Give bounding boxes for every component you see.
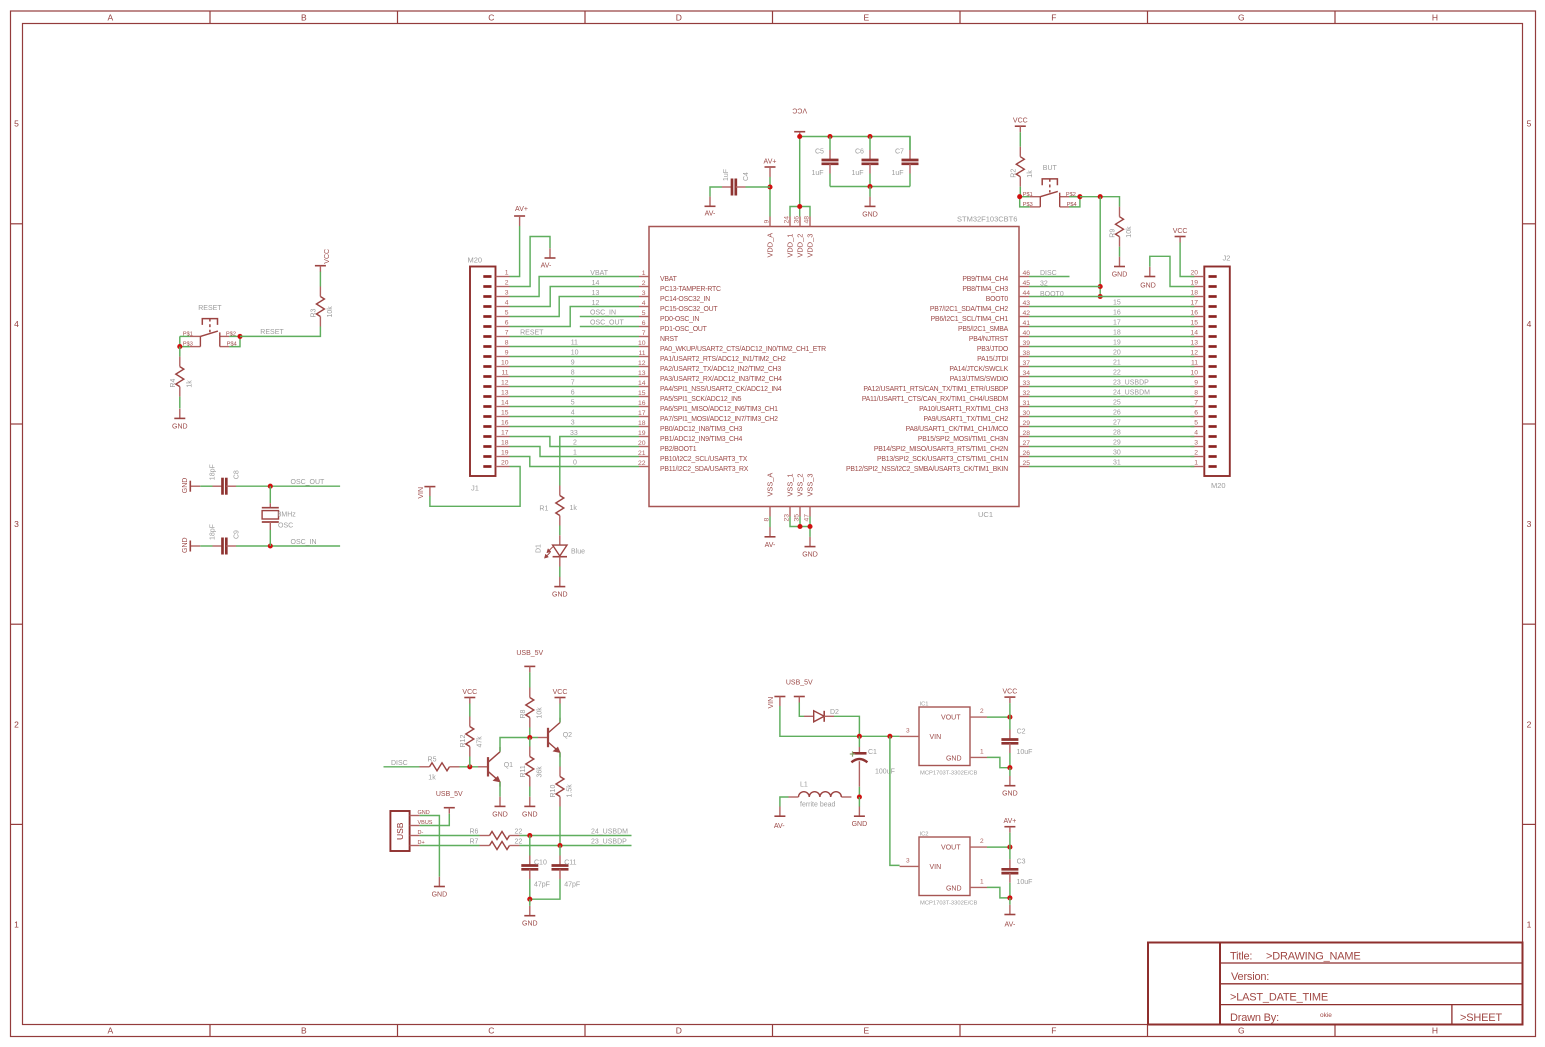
svg-text:P$2: P$2 xyxy=(226,332,236,338)
wire R8 to node xyxy=(529,728,531,738)
wire USB_5V to VBUS xyxy=(420,814,450,826)
svg-text:18: 18 xyxy=(1113,330,1121,337)
svg-text:MCP1703T-3302E/CB: MCP1703T-3302E/CB xyxy=(920,901,977,907)
svg-text:C6: C6 xyxy=(855,148,864,155)
svg-text:22: 22 xyxy=(515,839,523,846)
svg-text:24_USBDM: 24_USBDM xyxy=(1113,390,1150,397)
svg-text:1.5k: 1.5k xyxy=(567,784,574,798)
svg-text:M20: M20 xyxy=(468,256,483,265)
svg-text:A: A xyxy=(107,13,113,23)
capacitor C3 10uF xyxy=(1001,847,1032,886)
svg-text:13: 13 xyxy=(1190,340,1198,347)
svg-text:PA11/USART1_CTS/CAN_RX/TIM1_CH: PA11/USART1_CTS/CAN_RX/TIM1_CH4/USBDM xyxy=(862,396,1009,403)
svg-text:PB10/I2C2_SCL/USART3_TX: PB10/I2C2_SCL/USART3_TX xyxy=(660,456,748,463)
svg-text:D: D xyxy=(676,13,682,23)
wire J1 pin 16 to IC (net 3) xyxy=(510,420,640,427)
svg-text:D2: D2 xyxy=(830,709,839,716)
svg-text:1uF: 1uF xyxy=(723,169,730,181)
svg-text:D1: D1 xyxy=(536,544,543,553)
wire IC1 VOUT to VCC xyxy=(987,716,1010,718)
wire C6 to GND rail xyxy=(869,174,871,187)
wire J1 pin 10 to IC (net 9) xyxy=(510,360,640,367)
wire R4 to GND xyxy=(179,397,181,409)
svg-text:10uF: 10uF xyxy=(1017,749,1033,756)
svg-text:8MHz: 8MHz xyxy=(278,511,297,518)
svg-text:PB13/SPI2_SCK/USART3_CTS/TIM1_: PB13/SPI2_SCK/USART3_CTS/TIM1_CH1N xyxy=(877,456,1008,463)
wire C6 to GND xyxy=(869,187,871,197)
ground AV- (VSS_A) xyxy=(765,527,777,549)
ground GND (C1) xyxy=(852,807,868,829)
svg-text:PA7/SPI1_MOSI/ADC12_IN7/TIM3_C: PA7/SPI1_MOSI/ADC12_IN7/TIM3_CH2 xyxy=(660,416,778,423)
capacitor C2 10uF xyxy=(1001,717,1032,756)
wire C7 to GND rail xyxy=(909,174,911,187)
svg-text:USB: USB xyxy=(395,822,405,840)
svg-text:GND: GND xyxy=(432,892,448,899)
svg-text:17: 17 xyxy=(638,410,646,417)
svg-text:C4: C4 xyxy=(743,172,750,181)
svg-text:22: 22 xyxy=(515,829,523,836)
svg-text:C2: C2 xyxy=(1017,728,1026,735)
wire VDD_1..3 bracket to VCC xyxy=(790,207,810,217)
wire node to IC2 VIN xyxy=(890,736,900,865)
wire R1 to LED D1 xyxy=(559,526,561,536)
svg-text:AV+: AV+ xyxy=(515,206,528,213)
svg-text:GND: GND xyxy=(852,821,868,828)
svg-text:AV-: AV- xyxy=(774,823,785,830)
resistor R8 10k xyxy=(520,688,544,728)
svg-text:10k: 10k xyxy=(1126,226,1133,238)
svg-text:C8: C8 xyxy=(234,470,241,479)
svg-text:5: 5 xyxy=(14,119,19,129)
junction crystal OSC_IN xyxy=(268,543,273,548)
svg-text:23_USBDP: 23_USBDP xyxy=(591,839,627,846)
wire R11 to GND xyxy=(529,787,531,797)
svg-text:4: 4 xyxy=(571,410,575,417)
diode D2 xyxy=(804,709,839,722)
wire net DISC (USB section) xyxy=(384,760,420,767)
wire J1 pin 1 to AV+ xyxy=(510,226,520,277)
capacitor C9 18pF xyxy=(210,524,241,554)
IC UC1 bottom pin 47 VSS_3 xyxy=(649,215,1019,520)
svg-text:PA5/SPI1_SCK/ADC12_IN5: PA5/SPI1_SCK/ADC12_IN5 xyxy=(660,396,742,403)
wire net 27 (IC row 16 to J2) xyxy=(1029,420,1194,427)
wire J1 pin 6 to IC row 4 (net 12) xyxy=(510,300,640,327)
svg-text:VBAT: VBAT xyxy=(660,276,678,283)
svg-text:P$4: P$4 xyxy=(227,342,237,348)
svg-text:5: 5 xyxy=(1527,119,1532,129)
svg-text:3: 3 xyxy=(1194,440,1198,447)
svg-text:M20: M20 xyxy=(1211,481,1226,490)
svg-text:PA9/USART1_TX/TIM1_CH2: PA9/USART1_TX/TIM1_CH2 xyxy=(923,416,1008,423)
svg-text:PA2/USART2_TX/ADC12_IN2/TIM2_C: PA2/USART2_TX/ADC12_IN2/TIM2_CH3 xyxy=(660,366,781,373)
wire net 23_USBDP (IC row 12 to J2) xyxy=(1029,380,1194,387)
connector USB body xyxy=(390,811,409,851)
svg-text:OSC_IN: OSC_IN xyxy=(590,310,616,317)
junction IC1 VOUT / C2 xyxy=(1007,715,1012,720)
svg-text:10k: 10k xyxy=(327,306,334,318)
svg-text:>LAST_DATE_TIME: >LAST_DATE_TIME xyxy=(1230,992,1328,1004)
svg-text:>DRAWING_NAME: >DRAWING_NAME xyxy=(1266,951,1360,963)
supply AV+ (J1) xyxy=(514,206,528,226)
svg-text:5: 5 xyxy=(1194,420,1198,427)
svg-text:R9: R9 xyxy=(1110,229,1117,238)
svg-text:R11: R11 xyxy=(520,765,527,777)
svg-text:3: 3 xyxy=(906,858,910,865)
capacitor C10 47pF xyxy=(521,856,550,889)
resistor R10 1.5k xyxy=(550,767,574,807)
svg-text:P$1: P$1 xyxy=(1023,192,1033,198)
svg-text:2: 2 xyxy=(14,719,19,729)
svg-text:29: 29 xyxy=(1113,440,1121,447)
resistor R3 10k xyxy=(310,287,334,327)
svg-text:VCC: VCC xyxy=(1003,689,1018,696)
wire USB_5V to R8 xyxy=(529,672,531,687)
svg-text:VCC: VCC xyxy=(792,107,807,114)
wire net 23_USBDP xyxy=(520,839,632,846)
wire J1 pin 11 to IC (net 8) xyxy=(510,370,640,377)
svg-text:3: 3 xyxy=(571,420,575,427)
svg-text:AV-: AV- xyxy=(541,262,552,269)
svg-text:PA12/USART1_RTS/CAN_TX/TIM1_ET: PA12/USART1_RTS/CAN_TX/TIM1_ETR/USBDP xyxy=(863,386,1008,393)
wire D2 to node xyxy=(834,716,859,736)
svg-text:1k: 1k xyxy=(1027,170,1034,178)
svg-text:VIN: VIN xyxy=(930,864,942,871)
svg-text:5: 5 xyxy=(642,310,646,317)
wire net 20 (IC row 9 to J2) xyxy=(1029,350,1194,357)
wire GND to C8 xyxy=(200,485,212,487)
svg-text:12: 12 xyxy=(638,360,646,367)
svg-text:F: F xyxy=(1051,13,1056,23)
svg-text:25: 25 xyxy=(1113,400,1121,407)
svg-text:1uF: 1uF xyxy=(892,170,904,177)
wire node to R11 xyxy=(529,738,531,747)
pushbutton BUT xyxy=(1020,165,1080,208)
wire C8 to crystal node / net OSC_OUT xyxy=(236,479,340,486)
svg-text:18pF: 18pF xyxy=(210,524,217,540)
resistor R9 10k xyxy=(1110,207,1134,247)
svg-text:PB6/I2C1_SCL/TIM4_CH1: PB6/I2C1_SCL/TIM4_CH1 xyxy=(931,316,1009,323)
svg-text:BOOT0: BOOT0 xyxy=(1040,291,1064,298)
svg-text:STM32F103CBT6: STM32F103CBT6 xyxy=(957,215,1017,224)
wire C11 to GND node xyxy=(530,879,560,899)
svg-text:P$2: P$2 xyxy=(1066,192,1076,198)
svg-text:OSC_OUT: OSC_OUT xyxy=(291,479,326,486)
svg-text:H: H xyxy=(1432,1026,1438,1036)
ground GND (top caps) xyxy=(862,197,878,219)
svg-text:21: 21 xyxy=(1113,360,1121,367)
svg-text:10uF: 10uF xyxy=(1017,879,1033,886)
svg-text:18: 18 xyxy=(1190,290,1198,297)
junction C1/L1/GND xyxy=(857,794,862,799)
svg-text:9: 9 xyxy=(505,350,509,357)
svg-text:Blue: Blue xyxy=(571,549,585,556)
svg-text:C9: C9 xyxy=(234,530,241,539)
wire VCC to Q2 collector xyxy=(559,704,561,723)
svg-text:2: 2 xyxy=(573,440,577,447)
svg-text:5: 5 xyxy=(505,310,509,317)
svg-text:20: 20 xyxy=(501,460,509,467)
svg-text:C11: C11 xyxy=(564,859,576,866)
svg-text:22: 22 xyxy=(638,460,646,467)
resistor R12 47k xyxy=(460,717,484,757)
junction VSS bracket 1 xyxy=(797,524,802,529)
svg-text:PB9/TIM4_CH4: PB9/TIM4_CH4 xyxy=(962,276,1008,283)
svg-text:Q2: Q2 xyxy=(563,732,572,739)
wire J1 pin 14 to IC (net 5) xyxy=(510,400,640,407)
svg-text:VCC: VCC xyxy=(324,249,331,264)
wire caps GND rail xyxy=(830,186,910,188)
supply VCC (top rail) xyxy=(792,107,807,137)
svg-text:11: 11 xyxy=(1191,360,1198,367)
svg-text:4: 4 xyxy=(14,319,19,329)
svg-text:33: 33 xyxy=(570,430,578,437)
wire net 32 (IC pin 45) xyxy=(1029,281,1100,288)
svg-text:PC13-TAMPER-RTC: PC13-TAMPER-RTC xyxy=(660,286,721,293)
svg-text:R1: R1 xyxy=(539,506,548,513)
svg-text:7: 7 xyxy=(642,330,646,337)
svg-text:PA14/JTCK/SWCLK: PA14/JTCK/SWCLK xyxy=(949,366,1008,373)
connector USB pin D+ xyxy=(410,840,425,846)
capacitor C7 1uF xyxy=(892,148,919,176)
svg-text:PA8/USART1_CK/TIM1_CH1/MCO: PA8/USART1_CK/TIM1_CH1/MCO xyxy=(906,426,1009,433)
wire Q2 emitter to R10 xyxy=(559,753,561,767)
svg-text:GND: GND xyxy=(1002,791,1018,798)
wire net 17 (IC row 6 to J2) xyxy=(1029,320,1194,327)
wire RESET net to R3 xyxy=(240,327,320,337)
svg-text:15: 15 xyxy=(638,390,646,397)
wire C9 to crystal node / net OSC_IN xyxy=(236,539,340,546)
svg-text:R12: R12 xyxy=(460,735,467,748)
svg-text:18: 18 xyxy=(638,420,646,427)
svg-text:Version:: Version: xyxy=(1231,971,1269,983)
svg-text:6: 6 xyxy=(505,320,509,327)
svg-text:R5: R5 xyxy=(428,756,437,763)
junction D- / C10 xyxy=(527,833,532,838)
svg-text:GND: GND xyxy=(946,756,962,763)
svg-text:4: 4 xyxy=(1527,319,1532,329)
svg-text:PB11/I2C2_SDA/USART3_RX: PB11/I2C2_SDA/USART3_RX xyxy=(660,466,749,473)
svg-text:6: 6 xyxy=(1194,410,1198,417)
svg-text:16: 16 xyxy=(501,420,509,427)
capacitor C6 1uF xyxy=(852,148,879,176)
svg-text:GND: GND xyxy=(552,592,568,599)
wire net 16 (IC row 5 to J2) xyxy=(1029,310,1194,317)
svg-text:3: 3 xyxy=(1527,519,1532,529)
svg-text:R2: R2 xyxy=(1010,169,1017,178)
svg-text:J2: J2 xyxy=(1223,254,1231,263)
wire USB_5V to D2 xyxy=(799,703,804,717)
svg-text:USB_5V: USB_5V xyxy=(436,791,463,798)
supply VCC (J2 pin 20) xyxy=(1173,228,1188,243)
svg-text:2: 2 xyxy=(505,280,509,287)
svg-text:1: 1 xyxy=(1527,920,1532,930)
svg-text:5: 5 xyxy=(571,400,575,407)
wire J1 pin 2 to AV- xyxy=(510,237,551,287)
svg-text:C10: C10 xyxy=(534,859,547,866)
junction RESET button left xyxy=(177,344,182,349)
svg-text:PB0/ADC12_IN8/TIM3_CH3: PB0/ADC12_IN8/TIM3_CH3 xyxy=(660,426,742,433)
svg-text:100uF: 100uF xyxy=(875,768,895,775)
svg-text:VIN: VIN xyxy=(768,697,775,709)
svg-text:J1: J1 xyxy=(471,484,479,493)
svg-text:10: 10 xyxy=(501,360,509,367)
svg-text:R4: R4 xyxy=(170,379,177,388)
svg-text:17: 17 xyxy=(1190,300,1198,307)
svg-text:VSS_3: VSS_3 xyxy=(806,473,815,496)
wire AV+ to VDD_A xyxy=(769,177,771,217)
svg-text:C: C xyxy=(488,13,494,23)
wire GND to J2 pin 19 xyxy=(1150,256,1195,286)
junction GND rail C6 xyxy=(867,184,872,189)
wire VCC to C6 xyxy=(869,137,871,151)
svg-text:H: H xyxy=(1432,13,1438,23)
wire net 18 (IC row 7 to J2) xyxy=(1029,330,1194,337)
wire IC1 GND pin to node xyxy=(987,757,1010,767)
svg-text:RESET: RESET xyxy=(198,305,222,312)
svg-text:20: 20 xyxy=(638,440,646,447)
svg-text:16: 16 xyxy=(638,400,646,407)
svg-text:14: 14 xyxy=(638,380,646,387)
title block xyxy=(1148,943,1523,1025)
ground GND (R11) xyxy=(522,797,538,819)
svg-text:MCP1703T-3302E/CB: MCP1703T-3302E/CB xyxy=(920,771,977,777)
resistor R7 22 xyxy=(470,839,523,850)
wire USB D- to R6 xyxy=(420,835,480,837)
svg-text:2: 2 xyxy=(980,708,984,715)
junction node to IC2 xyxy=(887,734,892,739)
wire net 26 (IC row 15 to J2) xyxy=(1029,410,1194,417)
transistor Q2 NPN xyxy=(538,718,572,758)
svg-text:L1: L1 xyxy=(800,782,808,789)
svg-text:12: 12 xyxy=(1190,350,1198,357)
svg-text:19: 19 xyxy=(638,430,646,437)
wire Q1 collector xyxy=(500,738,538,752)
svg-text:3: 3 xyxy=(505,290,509,297)
svg-text:47pF: 47pF xyxy=(534,881,550,888)
junction BUT left xyxy=(1017,194,1022,199)
junction RESET button right xyxy=(237,334,242,339)
svg-text:1: 1 xyxy=(980,749,984,756)
svg-text:24_USBDM: 24_USBDM xyxy=(591,829,628,836)
junction C10/C11 GND xyxy=(527,897,532,902)
svg-text:1uF: 1uF xyxy=(812,170,824,177)
ground AV- (L1) xyxy=(774,807,786,831)
svg-text:PB1/ADC12_IN9/TIM3_CH4: PB1/ADC12_IN9/TIM3_CH4 xyxy=(660,436,742,443)
svg-text:AV-: AV- xyxy=(1005,921,1016,928)
svg-text:VDD_1: VDD_1 xyxy=(786,234,795,258)
svg-text:3: 3 xyxy=(642,290,646,297)
connector USB pin D- xyxy=(410,830,424,836)
svg-text:26: 26 xyxy=(1113,410,1121,417)
svg-text:PA0_WKUP/USART2_CTS/ADC12_IN0/: PA0_WKUP/USART2_CTS/ADC12_IN0/TIM2_CH1_E… xyxy=(660,346,826,353)
junction R5/R12/Q1 xyxy=(467,764,472,769)
svg-text:E: E xyxy=(863,1026,869,1036)
ground GND (LED) xyxy=(552,577,568,599)
wire VCC to R12 xyxy=(469,704,471,717)
svg-text:18pF: 18pF xyxy=(210,464,217,480)
wire junction to GND (IC1) xyxy=(1009,768,1011,776)
supply AV+ (C4) xyxy=(764,159,777,178)
svg-text:1uF: 1uF xyxy=(852,170,864,177)
svg-text:DISC: DISC xyxy=(391,760,408,767)
wire J1 pin 19 to IC row 20 (net 0) xyxy=(510,457,640,467)
svg-text:8: 8 xyxy=(571,370,575,377)
svg-text:2: 2 xyxy=(1527,719,1532,729)
connector J1 pin 20 xyxy=(468,256,496,493)
junction VCC rail C6 xyxy=(867,134,872,139)
svg-text:13: 13 xyxy=(592,290,600,297)
svg-text:20: 20 xyxy=(1190,270,1198,277)
svg-text:DISC: DISC xyxy=(1040,270,1057,277)
svg-text:7: 7 xyxy=(505,330,509,337)
svg-text:AV+: AV+ xyxy=(764,159,777,166)
svg-text:36k: 36k xyxy=(536,766,543,778)
wire VSS_A to AV- xyxy=(769,517,771,528)
svg-text:31: 31 xyxy=(1113,460,1121,467)
wire R3 to VCC xyxy=(319,272,321,287)
wire VSS_1..3 bracket to GND xyxy=(790,517,810,537)
svg-text:18: 18 xyxy=(501,440,509,447)
svg-text:1: 1 xyxy=(980,879,984,886)
ground AV- (J1) xyxy=(541,248,556,269)
junction VCC rail at stem xyxy=(797,134,802,139)
svg-text:G: G xyxy=(1238,13,1245,23)
svg-text:PB3/JTDO: PB3/JTDO xyxy=(977,346,1009,353)
svg-text:E: E xyxy=(863,13,869,23)
svg-text:VDD_3: VDD_3 xyxy=(806,234,815,258)
svg-text:1: 1 xyxy=(14,920,19,930)
svg-text:23_USBDP: 23_USBDP xyxy=(1113,380,1149,387)
ground GND (USB) xyxy=(432,877,448,899)
pushbutton RESET xyxy=(180,305,240,348)
wire net 21 (IC row 10 to J2) xyxy=(1029,360,1194,367)
wire J1 pin 3 to IC row 1 (net VBAT) xyxy=(510,270,640,297)
svg-text:VDD_2: VDD_2 xyxy=(796,234,805,258)
svg-text:14: 14 xyxy=(501,400,509,407)
wire OSC_IN stub to IC pin 5 xyxy=(580,310,639,317)
wire USB D+ to R7 xyxy=(420,845,480,847)
ground GND (J2 pin 19) xyxy=(1140,267,1156,290)
ground GND (C9) xyxy=(182,537,201,553)
wire crystal bottom xyxy=(269,530,271,546)
inductor L1 ferrite bead xyxy=(789,782,852,809)
svg-text:USB_5V: USB_5V xyxy=(786,680,813,687)
resistor R4 1k xyxy=(170,357,194,397)
svg-text:20: 20 xyxy=(1113,350,1121,357)
svg-text:2: 2 xyxy=(1194,450,1198,457)
supply VCC (Q2) xyxy=(553,689,568,704)
svg-text:F: F xyxy=(1051,1026,1056,1036)
svg-text:P$3: P$3 xyxy=(1023,202,1033,208)
resistor R2 1k xyxy=(1010,147,1034,187)
junction VDD bracket xyxy=(797,204,802,209)
svg-text:2: 2 xyxy=(642,280,646,287)
svg-text:BUT: BUT xyxy=(1043,165,1058,172)
resistor R5 1k xyxy=(420,756,460,781)
supply VCC (R12) xyxy=(462,689,477,704)
svg-text:OSC_IN: OSC_IN xyxy=(291,539,317,546)
svg-text:PB14/SPI2_MISO/USART3_RTS/TIM1: PB14/SPI2_MISO/USART3_RTS/TIM1_CH2N xyxy=(874,446,1008,453)
wire L1 to AV- xyxy=(780,797,789,807)
resistor R1 1k xyxy=(539,486,577,526)
svg-text:GND: GND xyxy=(1112,272,1128,279)
crystal OSC 8MHz xyxy=(262,503,296,530)
junction crystal OSC_OUT xyxy=(268,484,273,489)
ground AV- (C4) xyxy=(705,197,717,218)
wire C5 to GND rail xyxy=(829,174,831,187)
junction R8/R11/Q2 base xyxy=(527,735,532,740)
svg-text:GND: GND xyxy=(946,886,962,893)
